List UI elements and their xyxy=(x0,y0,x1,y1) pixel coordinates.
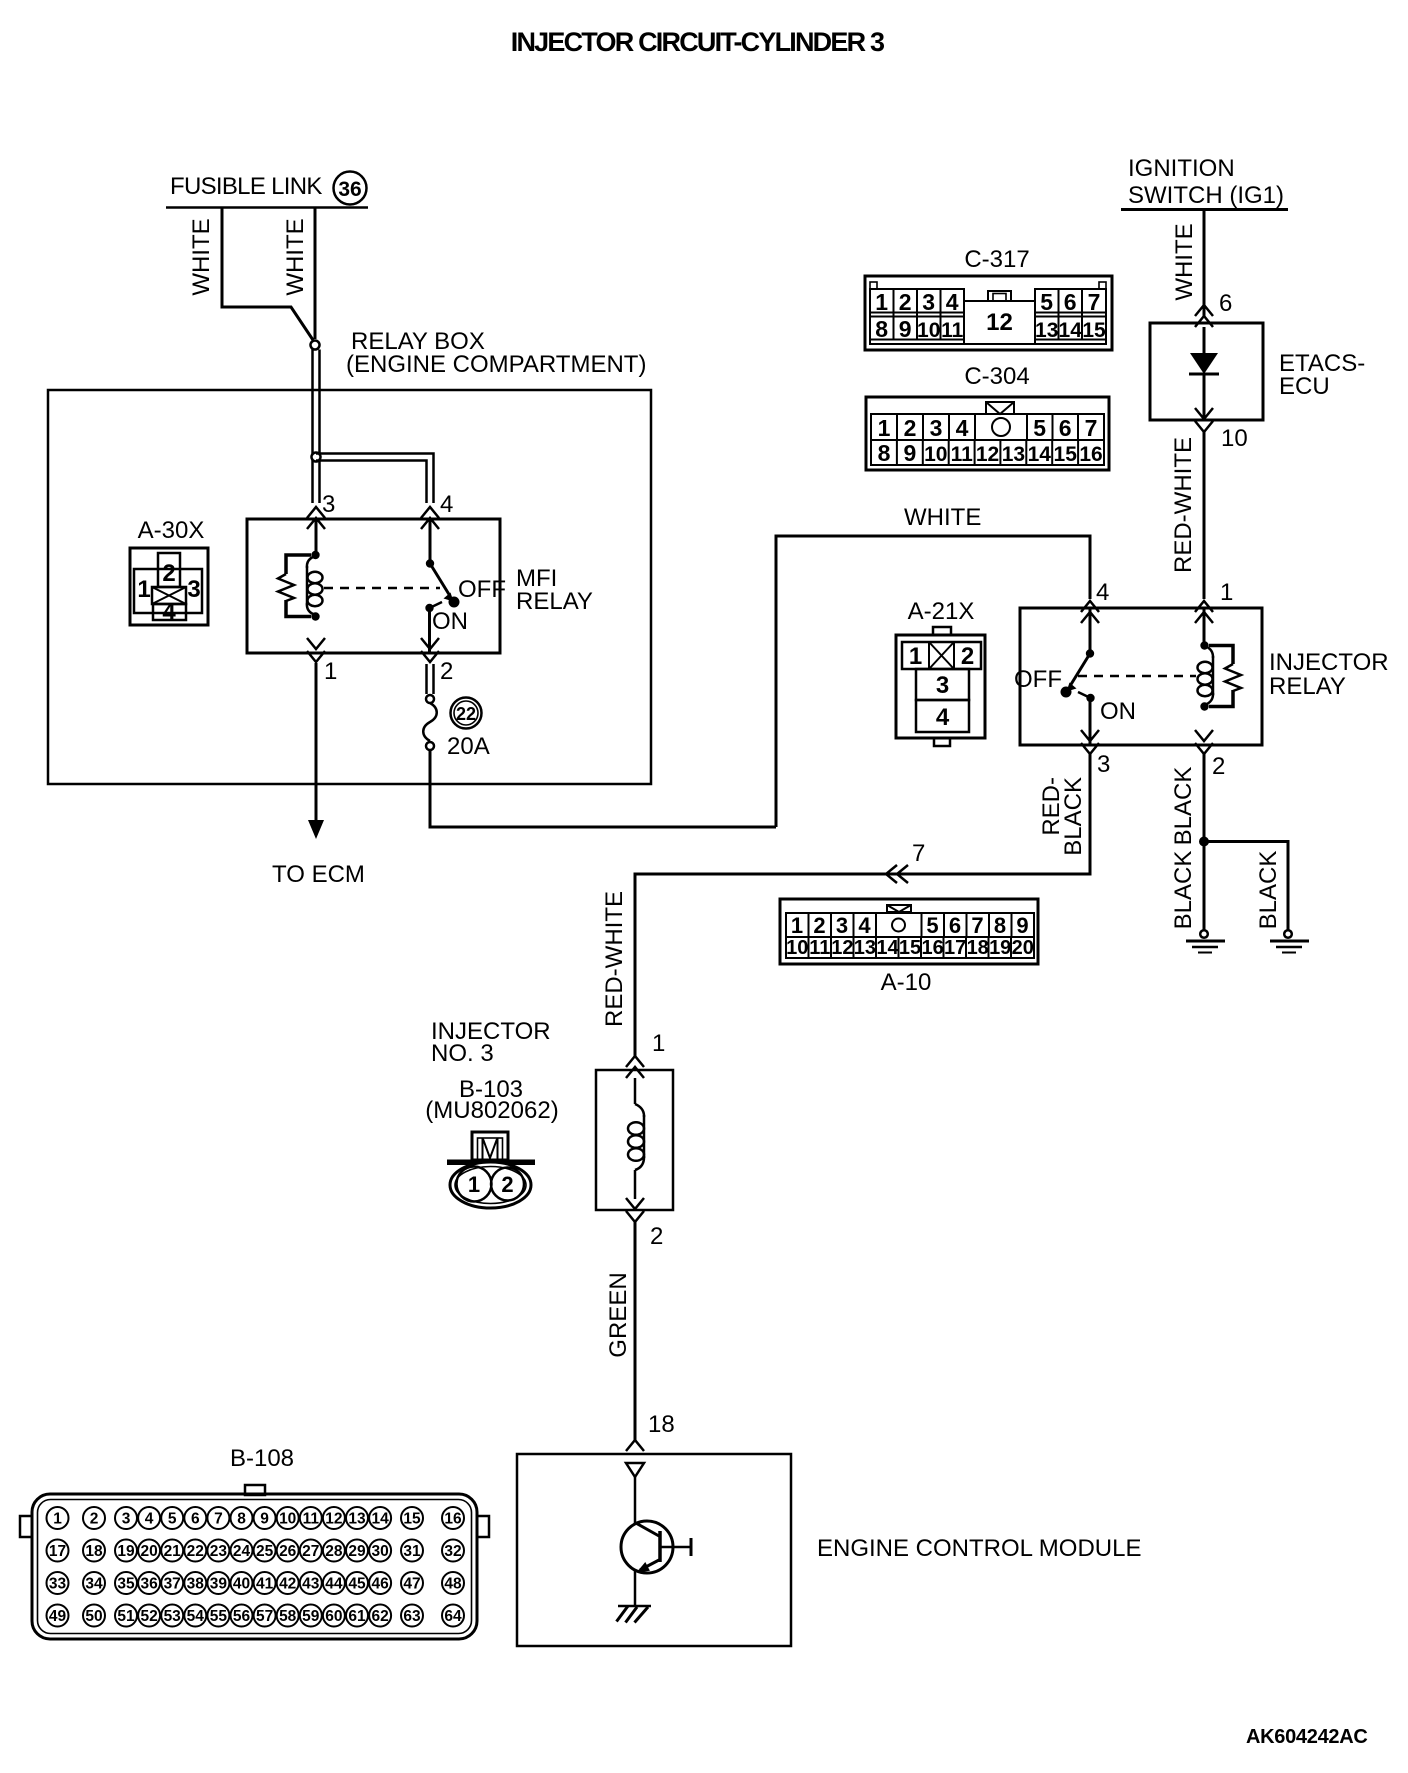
svg-text:1: 1 xyxy=(652,1030,665,1057)
svg-text:52: 52 xyxy=(140,1608,157,1625)
svg-text:4: 4 xyxy=(956,415,969,441)
ignition switch bus bar xyxy=(1121,208,1288,211)
svg-text:31: 31 xyxy=(403,1543,421,1560)
svg-text:2: 2 xyxy=(162,560,175,587)
ECM input triangle xyxy=(626,1463,644,1477)
svg-text:25: 25 xyxy=(256,1543,274,1560)
connector B-103 icon xyxy=(447,1132,535,1208)
svg-text:2: 2 xyxy=(440,658,453,685)
svg-text:4: 4 xyxy=(936,704,950,731)
svg-text:B-108: B-108 xyxy=(230,1445,294,1472)
svg-text:3: 3 xyxy=(1097,751,1110,778)
svg-text:4: 4 xyxy=(1096,579,1109,606)
wire white left from fusible link xyxy=(222,208,313,341)
svg-text:18: 18 xyxy=(648,1411,675,1438)
svg-text:7: 7 xyxy=(1085,415,1098,441)
svg-text:37: 37 xyxy=(164,1576,181,1593)
ECM ground xyxy=(617,1606,652,1623)
svg-text:5: 5 xyxy=(1033,415,1046,441)
svg-text:10: 10 xyxy=(924,443,947,466)
svg-text:9: 9 xyxy=(904,440,917,466)
svg-text:4: 4 xyxy=(162,599,176,626)
pin 1 chevrons injector relay xyxy=(1195,601,1213,623)
svg-text:50: 50 xyxy=(85,1608,102,1625)
engine control module box xyxy=(517,1454,791,1646)
svg-text:11: 11 xyxy=(303,1511,320,1528)
wire RED-BLACK from injector relay pin 3 to A-10 pin 7 xyxy=(635,754,1090,1056)
svg-text:ENGINE CONTROL MODULE: ENGINE CONTROL MODULE xyxy=(817,1535,1141,1562)
svg-text:16: 16 xyxy=(1079,443,1102,466)
MFI relay dashed actuation line xyxy=(324,587,440,590)
svg-text:15: 15 xyxy=(403,1511,421,1528)
svg-text:3: 3 xyxy=(922,289,935,315)
svg-text:27: 27 xyxy=(302,1543,319,1560)
node junction black wires xyxy=(1199,837,1209,847)
svg-text:7: 7 xyxy=(214,1511,223,1528)
connector C-317 xyxy=(865,276,1112,350)
svg-text:2: 2 xyxy=(501,1172,513,1197)
wire WHITE up and across to injector relay pin 4 xyxy=(776,536,1090,827)
wire triangle to transistor xyxy=(634,1477,637,1522)
svg-text:SWITCH (IG1): SWITCH (IG1) xyxy=(1128,182,1284,209)
svg-text:5: 5 xyxy=(926,913,938,938)
fusible link bus bar xyxy=(166,206,368,209)
injector relay dashed actuation line xyxy=(1078,675,1196,678)
svg-text:3: 3 xyxy=(122,1511,131,1528)
MFI relay coil xyxy=(307,551,323,621)
fusible link 36 circle xyxy=(334,172,367,205)
svg-text:GREEN: GREEN xyxy=(605,1272,632,1357)
svg-text:24: 24 xyxy=(233,1543,251,1560)
svg-text:TO ECM: TO ECM xyxy=(272,861,365,888)
svg-text:1: 1 xyxy=(53,1511,62,1528)
pin 10 chevrons xyxy=(1195,408,1213,432)
relay: injector relay box xyxy=(1020,608,1262,745)
svg-text:29: 29 xyxy=(348,1543,366,1560)
svg-text:56: 56 xyxy=(233,1608,251,1625)
svg-text:23: 23 xyxy=(210,1543,228,1560)
svg-text:C-317: C-317 xyxy=(964,246,1029,273)
pin 18 chevron xyxy=(626,1440,644,1451)
svg-text:11: 11 xyxy=(941,319,964,342)
svg-text:14: 14 xyxy=(1028,443,1052,466)
svg-text:9: 9 xyxy=(899,316,912,342)
svg-text:A-21X: A-21X xyxy=(908,598,975,625)
svg-text:20: 20 xyxy=(1012,937,1034,959)
svg-text:22: 22 xyxy=(456,704,476,724)
pin 4 chevrons injector relay xyxy=(1081,601,1099,623)
svg-text:3: 3 xyxy=(930,415,943,441)
svg-text:8: 8 xyxy=(878,440,891,466)
svg-text:6: 6 xyxy=(191,1511,200,1528)
wire black branch right xyxy=(1204,842,1288,931)
wire 7 chevrons left xyxy=(886,865,908,883)
svg-text:6: 6 xyxy=(1064,289,1077,315)
svg-text:63: 63 xyxy=(403,1608,421,1625)
svg-text:20: 20 xyxy=(140,1543,157,1560)
svg-text:41: 41 xyxy=(256,1576,274,1593)
svg-text:34: 34 xyxy=(85,1576,103,1593)
svg-text:64: 64 xyxy=(444,1608,462,1625)
B-108 pin circles 1-64 xyxy=(47,1507,465,1627)
svg-text:47: 47 xyxy=(403,1576,420,1593)
svg-text:12: 12 xyxy=(986,309,1013,336)
svg-text:1: 1 xyxy=(791,913,803,938)
wire MFI pin1 to ECM arrow xyxy=(315,663,318,821)
svg-text:13: 13 xyxy=(348,1511,366,1528)
svg-text:15: 15 xyxy=(899,937,921,959)
injector pin 2 chevrons xyxy=(626,1198,644,1222)
svg-text:BLACK: BLACK xyxy=(1255,851,1282,930)
svg-text:BLACK: BLACK xyxy=(1060,777,1087,856)
svg-text:35: 35 xyxy=(117,1576,135,1593)
pin 6 chevrons xyxy=(1195,305,1213,327)
svg-text:61: 61 xyxy=(348,1608,366,1625)
svg-text:12: 12 xyxy=(976,443,999,466)
svg-text:17: 17 xyxy=(944,937,966,959)
connector A-21X symbol xyxy=(896,627,985,746)
wire BLACK from injector relay pin 2 xyxy=(1203,754,1206,930)
injector relay resistor (parallel) xyxy=(1209,646,1241,707)
svg-text:59: 59 xyxy=(302,1608,320,1625)
svg-text:6: 6 xyxy=(1219,290,1232,317)
svg-text:A-30X: A-30X xyxy=(138,517,205,544)
svg-text:51: 51 xyxy=(117,1608,135,1625)
svg-text:4: 4 xyxy=(858,913,871,938)
svg-text:1: 1 xyxy=(1220,579,1233,606)
fuse 22 element xyxy=(423,703,437,741)
svg-text:13: 13 xyxy=(1002,443,1025,466)
svg-text:WHITE: WHITE xyxy=(282,218,309,295)
svg-text:2: 2 xyxy=(904,415,917,441)
svg-text:(ENGINE COMPARTMENT): (ENGINE COMPARTMENT) xyxy=(346,351,646,378)
fuse 22 holder top double line xyxy=(425,664,428,694)
svg-text:49: 49 xyxy=(49,1608,67,1625)
svg-text:2: 2 xyxy=(650,1223,663,1250)
svg-text:AK604242AC: AK604242AC xyxy=(1246,1726,1368,1748)
svg-text:IGNITION: IGNITION xyxy=(1128,155,1235,182)
svg-text:43: 43 xyxy=(302,1576,320,1593)
svg-text:42: 42 xyxy=(279,1576,296,1593)
svg-text:4: 4 xyxy=(145,1511,154,1528)
ground left xyxy=(1186,930,1225,952)
svg-text:9: 9 xyxy=(260,1511,269,1528)
svg-text:8: 8 xyxy=(994,913,1006,938)
svg-text:(MU802062): (MU802062) xyxy=(425,1097,558,1124)
pin 2 chevrons xyxy=(1195,730,1213,754)
svg-text:INJECTOR CIRCUIT-CYLINDER 3: INJECTOR CIRCUIT-CYLINDER 3 xyxy=(511,27,885,57)
relay box (engine compartment) xyxy=(48,390,651,784)
connector C-304 xyxy=(866,397,1109,470)
svg-text:6: 6 xyxy=(1059,415,1072,441)
svg-text:8: 8 xyxy=(237,1511,246,1528)
svg-text:53: 53 xyxy=(164,1608,182,1625)
TO ECM arrowhead xyxy=(308,820,324,839)
MFI relay coil wire from pin 3 xyxy=(315,519,318,553)
svg-text:32: 32 xyxy=(444,1543,461,1560)
svg-text:RELAY: RELAY xyxy=(516,588,593,615)
svg-text:BLACK: BLACK xyxy=(1170,767,1197,846)
wire double line branch to MFI pin 4 xyxy=(316,454,434,504)
svg-text:3: 3 xyxy=(322,491,335,518)
wire double line down to MFI pin 3 xyxy=(311,350,314,504)
svg-text:14: 14 xyxy=(876,937,899,959)
injector coil L1 xyxy=(628,1078,644,1199)
connector A-30X symbol xyxy=(130,548,208,626)
svg-text:28: 28 xyxy=(325,1543,343,1560)
svg-text:7: 7 xyxy=(1088,289,1101,315)
svg-text:OFF: OFF xyxy=(1014,666,1062,693)
svg-text:14: 14 xyxy=(1059,319,1083,342)
svg-text:BLACK: BLACK xyxy=(1170,851,1197,930)
svg-text:7: 7 xyxy=(912,840,925,867)
svg-text:30: 30 xyxy=(371,1543,388,1560)
svg-text:11: 11 xyxy=(951,443,974,466)
svg-text:ON: ON xyxy=(432,608,468,635)
svg-text:2: 2 xyxy=(90,1511,99,1528)
svg-text:5: 5 xyxy=(1040,289,1053,315)
svg-text:NO. 3: NO. 3 xyxy=(431,1040,494,1067)
svg-text:6: 6 xyxy=(949,913,961,938)
svg-text:60: 60 xyxy=(325,1608,342,1625)
node junction on double line xyxy=(312,453,321,462)
svg-text:1: 1 xyxy=(137,576,150,603)
pin 4 arrow chevrons xyxy=(421,507,439,529)
svg-text:36: 36 xyxy=(338,178,361,201)
svg-text:3: 3 xyxy=(936,672,949,699)
MFI relay resistor (parallel) xyxy=(278,555,311,617)
svg-text:21: 21 xyxy=(164,1543,182,1560)
connector A-10 xyxy=(780,899,1038,964)
svg-text:C-304: C-304 xyxy=(964,363,1029,390)
transistor Q1 xyxy=(621,1521,691,1606)
svg-text:10: 10 xyxy=(786,937,808,959)
svg-text:15: 15 xyxy=(1082,319,1106,342)
svg-text:20A: 20A xyxy=(447,733,490,760)
svg-text:2: 2 xyxy=(961,643,974,670)
svg-text:26: 26 xyxy=(279,1543,297,1560)
svg-text:16: 16 xyxy=(921,937,943,959)
wire white from ignition switch xyxy=(1203,210,1206,317)
svg-text:FUSIBLE LINK: FUSIBLE LINK xyxy=(170,173,322,200)
wire from fuse down and right to white wire xyxy=(430,750,776,827)
svg-text:45: 45 xyxy=(348,1576,366,1593)
svg-text:39: 39 xyxy=(210,1576,228,1593)
svg-text:13: 13 xyxy=(1035,319,1058,342)
svg-text:19: 19 xyxy=(117,1543,135,1560)
pin 3 chevrons xyxy=(1081,730,1099,754)
diode D1 in ETACS xyxy=(1189,327,1219,420)
injector component box xyxy=(596,1070,673,1210)
svg-text:1: 1 xyxy=(324,658,337,685)
svg-text:1: 1 xyxy=(878,415,891,441)
svg-text:1: 1 xyxy=(468,1172,480,1197)
svg-text:1: 1 xyxy=(875,289,888,315)
svg-text:INJECTOR: INJECTOR xyxy=(1269,649,1389,676)
svg-text:54: 54 xyxy=(187,1608,205,1625)
svg-text:11: 11 xyxy=(809,937,830,959)
svg-text:5: 5 xyxy=(168,1511,177,1528)
svg-text:WHITE: WHITE xyxy=(904,504,981,531)
ground right xyxy=(1270,930,1309,952)
fuse terminal circle top xyxy=(426,695,434,703)
svg-text:1: 1 xyxy=(909,643,922,670)
svg-text:55: 55 xyxy=(210,1608,228,1625)
svg-text:WHITE: WHITE xyxy=(1171,223,1198,300)
svg-text:2: 2 xyxy=(899,289,912,315)
injector relay switch xyxy=(1061,608,1095,745)
svg-text:46: 46 xyxy=(371,1576,389,1593)
ETACS-ECU box xyxy=(1150,323,1263,420)
svg-text:WHITE: WHITE xyxy=(188,218,215,295)
wire RED-WHITE to injector relay pin 1 xyxy=(1203,432,1206,599)
svg-text:62: 62 xyxy=(371,1608,388,1625)
svg-text:44: 44 xyxy=(325,1576,343,1593)
svg-text:12: 12 xyxy=(831,937,853,959)
svg-text:14: 14 xyxy=(371,1511,389,1528)
svg-text:3: 3 xyxy=(836,913,848,938)
svg-text:10: 10 xyxy=(917,319,940,342)
svg-text:3: 3 xyxy=(187,576,200,603)
svg-text:22: 22 xyxy=(187,1543,204,1560)
svg-text:4: 4 xyxy=(440,491,453,518)
injector pin 1 chevrons xyxy=(626,1056,644,1078)
svg-text:13: 13 xyxy=(854,937,876,959)
node junction at relay box entry xyxy=(311,341,320,350)
svg-text:2: 2 xyxy=(813,913,825,938)
svg-text:A-10: A-10 xyxy=(881,969,932,996)
svg-text:36: 36 xyxy=(140,1576,158,1593)
fuse number circle 22 xyxy=(451,698,482,729)
svg-text:58: 58 xyxy=(279,1608,297,1625)
svg-text:18: 18 xyxy=(85,1543,103,1560)
svg-text:9: 9 xyxy=(1016,913,1028,938)
svg-text:10: 10 xyxy=(279,1511,296,1528)
svg-text:OFF: OFF xyxy=(458,576,506,603)
svg-text:10: 10 xyxy=(1221,425,1248,452)
svg-text:ECU: ECU xyxy=(1279,373,1330,400)
svg-text:33: 33 xyxy=(49,1576,67,1593)
pin 3 arrow chevrons xyxy=(307,507,325,529)
svg-text:40: 40 xyxy=(233,1576,250,1593)
MFI pin 1 chevrons xyxy=(307,638,325,662)
injector relay coil xyxy=(1198,608,1214,711)
svg-text:RELAY: RELAY xyxy=(1269,673,1346,700)
svg-text:ON: ON xyxy=(1100,698,1136,725)
svg-text:17: 17 xyxy=(49,1543,66,1560)
connector B-108 xyxy=(20,1485,489,1639)
svg-text:4: 4 xyxy=(946,289,959,315)
op: MFI relay box xyxy=(247,519,500,653)
fuse terminal circle bottom xyxy=(426,742,434,750)
MFI pin 2 chevrons xyxy=(421,638,439,662)
svg-text:15: 15 xyxy=(1054,443,1078,466)
MFI relay switch xyxy=(425,519,459,653)
svg-text:8: 8 xyxy=(875,316,888,342)
svg-text:RED-WHITE: RED-WHITE xyxy=(601,891,628,1027)
svg-text:38: 38 xyxy=(187,1576,205,1593)
svg-text:RED-WHITE: RED-WHITE xyxy=(1170,437,1197,573)
wire GREEN to ECM xyxy=(634,1222,637,1440)
svg-text:12: 12 xyxy=(325,1511,342,1528)
svg-text:2: 2 xyxy=(1212,753,1225,780)
svg-text:16: 16 xyxy=(444,1511,462,1528)
wire white right from fusible link xyxy=(314,208,317,340)
svg-text:18: 18 xyxy=(967,937,989,959)
svg-text:48: 48 xyxy=(444,1576,462,1593)
svg-text:7: 7 xyxy=(971,913,983,938)
svg-text:19: 19 xyxy=(989,937,1011,959)
svg-text:57: 57 xyxy=(256,1608,273,1625)
